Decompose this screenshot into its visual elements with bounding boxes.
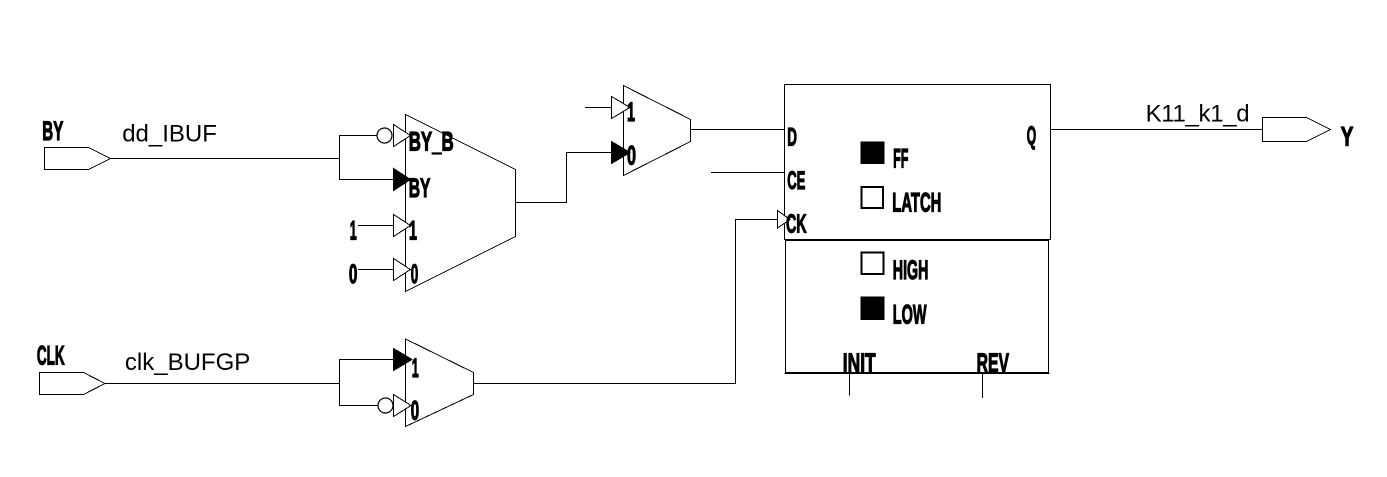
svg-text:REV: REV: [977, 348, 1009, 378]
input triangle 0 of M2 (filled): [612, 142, 631, 164]
pin REV stub: [982, 375, 984, 398]
input triangle BY (filled): [394, 169, 411, 191]
svg-text:0: 0: [349, 259, 358, 289]
svg-text:CE: CE: [787, 167, 805, 195]
svg-text:Y: Y: [1341, 121, 1354, 151]
input port CLK: [40, 373, 106, 395]
input triangle BY_B (open): [394, 125, 411, 147]
svg-text:HIGH: HIGH: [893, 255, 929, 285]
wire constant 1 stub: [359, 225, 394, 227]
svg-text:BY_B: BY_B: [409, 126, 454, 156]
clock edge triangle at CK: [778, 211, 791, 229]
svg-text:INIT: INIT: [843, 348, 876, 378]
wire vertical up to mux M2: [566, 153, 568, 203]
svg-text:BY: BY: [409, 173, 431, 203]
wire stub mux M2 input 1: [586, 107, 612, 109]
svg-text:LATCH: LATCH: [892, 188, 941, 218]
wire to BY input: [340, 179, 394, 181]
input port BY: [45, 148, 111, 170]
svg-text:dd_IBUF: dd_IBUF: [122, 121, 217, 148]
mux M1 body (4-input): [406, 115, 516, 292]
flip-flop block U1 lower box: [786, 241, 1049, 373]
option square HIGH (open): [862, 253, 884, 275]
input triangle 0 (open): [394, 259, 411, 281]
option square FF (filled): [861, 142, 885, 165]
svg-text:0: 0: [627, 141, 636, 171]
svg-text:CK: CK: [786, 208, 807, 238]
svg-text:BY: BY: [42, 116, 63, 146]
pin INIT stub: [849, 375, 851, 396]
flip-flop bottom edge emphasis: [785, 373, 1049, 375]
wire dd_IBUF horizontal: [111, 158, 340, 160]
option square LOW (filled): [861, 297, 885, 321]
wire into mux M2 input 0: [567, 152, 612, 154]
mux M2 body (2-input): [624, 86, 691, 176]
wire junction vertical at branch: [339, 136, 341, 180]
svg-text:clk_BUFGP: clk_BUFGP: [125, 349, 250, 376]
svg-text:1: 1: [409, 216, 417, 246]
input triangle 1 of M3 (filled): [394, 349, 413, 371]
svg-text:1: 1: [350, 216, 357, 246]
wire mux M3 output: [474, 383, 736, 385]
wire to M3 bubble 0: [340, 405, 379, 407]
svg-text:1: 1: [412, 353, 419, 383]
output port Y: [1263, 118, 1331, 142]
svg-text:0: 0: [411, 259, 419, 289]
flip-flop block U1 upper box: [785, 85, 1051, 240]
wire to BY_B bubble: [340, 135, 378, 137]
svg-text:Q: Q: [1027, 121, 1036, 151]
input triangle 0 of M3 (open): [394, 395, 412, 417]
inverter bubble BY_B: [377, 128, 392, 143]
mux M3 body (2-input clock): [406, 339, 474, 427]
option square LATCH (open): [862, 187, 884, 208]
wire vertical up to CK: [735, 220, 737, 384]
inverter bubble M3 input 0: [378, 398, 393, 413]
wire into CK pin: [736, 219, 785, 221]
svg-text:K11_k1_d: K11_k1_d: [1146, 101, 1250, 128]
svg-text:0: 0: [411, 396, 419, 426]
wire constant 0 stub: [359, 269, 394, 271]
wire clk_BUFGP horizontal: [105, 383, 340, 385]
wire mux M1 output: [516, 202, 567, 204]
wire Q output: [1051, 129, 1263, 131]
svg-text:1: 1: [627, 97, 635, 127]
wire to M3 input 1: [340, 359, 394, 361]
wire mux M2 output to D: [691, 129, 785, 131]
svg-text:FF: FF: [893, 144, 908, 174]
wire junction vertical clk branch: [339, 360, 341, 406]
svg-text:D: D: [787, 123, 797, 151]
svg-text:LOW: LOW: [893, 299, 927, 329]
svg-text:CLK: CLK: [37, 341, 65, 371]
wire CE stub: [712, 172, 785, 174]
input triangle 1 (open): [394, 215, 411, 237]
input triangle 1 of M2 (open): [612, 97, 631, 119]
